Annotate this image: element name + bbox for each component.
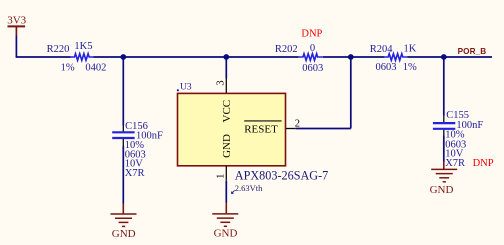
ground symbol left	[111, 214, 137, 226]
wire C156 to ground	[122, 146, 124, 204]
svg-text:VCC: VCC	[221, 100, 233, 123]
junction node at U3 VCC tap	[223, 54, 229, 60]
wire C155 to ground	[443, 136, 445, 162]
svg-text:GND: GND	[112, 228, 136, 240]
wire RESET to riser	[296, 128, 351, 130]
wire down to U3 pin 3	[225, 57, 227, 79]
svg-text:R204: R204	[370, 44, 394, 55]
svg-text:0603: 0603	[376, 62, 397, 73]
ground symbol middle	[212, 214, 238, 226]
svg-text:R220: R220	[47, 44, 70, 55]
svg-text:3: 3	[215, 80, 226, 85]
svg-text:U3: U3	[180, 83, 192, 93]
ground symbol right	[431, 169, 457, 181]
designator U3	[177, 83, 192, 93]
svg-text:0402: 0402	[85, 63, 106, 74]
wire down to C155	[443, 57, 445, 116]
svg-text:1K: 1K	[404, 44, 417, 55]
wire rail segment R220 to R202	[94, 56, 299, 58]
resistor R202	[299, 54, 323, 61]
svg-text:GND: GND	[214, 227, 238, 239]
wire down to C156	[122, 57, 124, 126]
wire main rail left segment	[16, 56, 71, 58]
svg-text:1K5: 1K5	[74, 41, 92, 52]
pin lead bottom of C155	[443, 130, 445, 136]
junction node at C155 tap	[441, 54, 447, 60]
wire U3 GND pin to ground	[225, 181, 227, 203]
svg-text:1: 1	[215, 174, 226, 179]
pin lead bottom of C156	[122, 139, 124, 146]
resistor R204	[384, 54, 407, 61]
pin lead top of C155	[443, 116, 445, 123]
svg-text:1%: 1%	[61, 63, 75, 74]
pin 2 of U3	[286, 128, 296, 130]
svg-text:R202: R202	[275, 44, 298, 55]
svg-text:POR_B: POR_B	[458, 47, 487, 56]
pin 3 of U3	[225, 79, 227, 94]
svg-text:RESET: RESET	[244, 123, 278, 135]
pin 1 of U3	[225, 166, 227, 181]
svg-text:0603: 0603	[302, 63, 323, 74]
wire from 3V3 down to main rail	[15, 36, 17, 58]
svg-text:2.63Vth: 2.63Vth	[235, 183, 263, 193]
power port 3V3 bar	[8, 26, 26, 35]
IC U3 body	[178, 93, 286, 165]
svg-text:DNP: DNP	[301, 29, 322, 40]
svg-text:X7R: X7R	[445, 158, 465, 169]
parameter 2.63Vth	[231, 183, 263, 194]
pin name RESET with overline	[244, 121, 281, 135]
wire riser up to rail	[350, 57, 352, 129]
resistor R220	[70, 54, 93, 61]
svg-text:GND: GND	[430, 184, 454, 196]
wire rail segment R202 to R204	[323, 56, 384, 58]
capacitor C156	[112, 132, 134, 138]
svg-text:X7R: X7R	[125, 168, 145, 179]
capacitor C155	[433, 123, 455, 129]
wire rail segment R204 to POR_B	[407, 56, 492, 58]
junction node at C156 tap	[120, 54, 126, 60]
svg-text:DNP: DNP	[473, 158, 494, 169]
svg-text:3V3: 3V3	[7, 14, 26, 26]
svg-text:GND: GND	[221, 134, 233, 158]
svg-text:1%: 1%	[403, 62, 417, 73]
svg-text:APX803-26SAG-7: APX803-26SAG-7	[235, 169, 328, 183]
junction node at RESET tap	[348, 54, 354, 60]
pin lead top of C156	[122, 126, 124, 132]
svg-text:0: 0	[310, 43, 315, 54]
